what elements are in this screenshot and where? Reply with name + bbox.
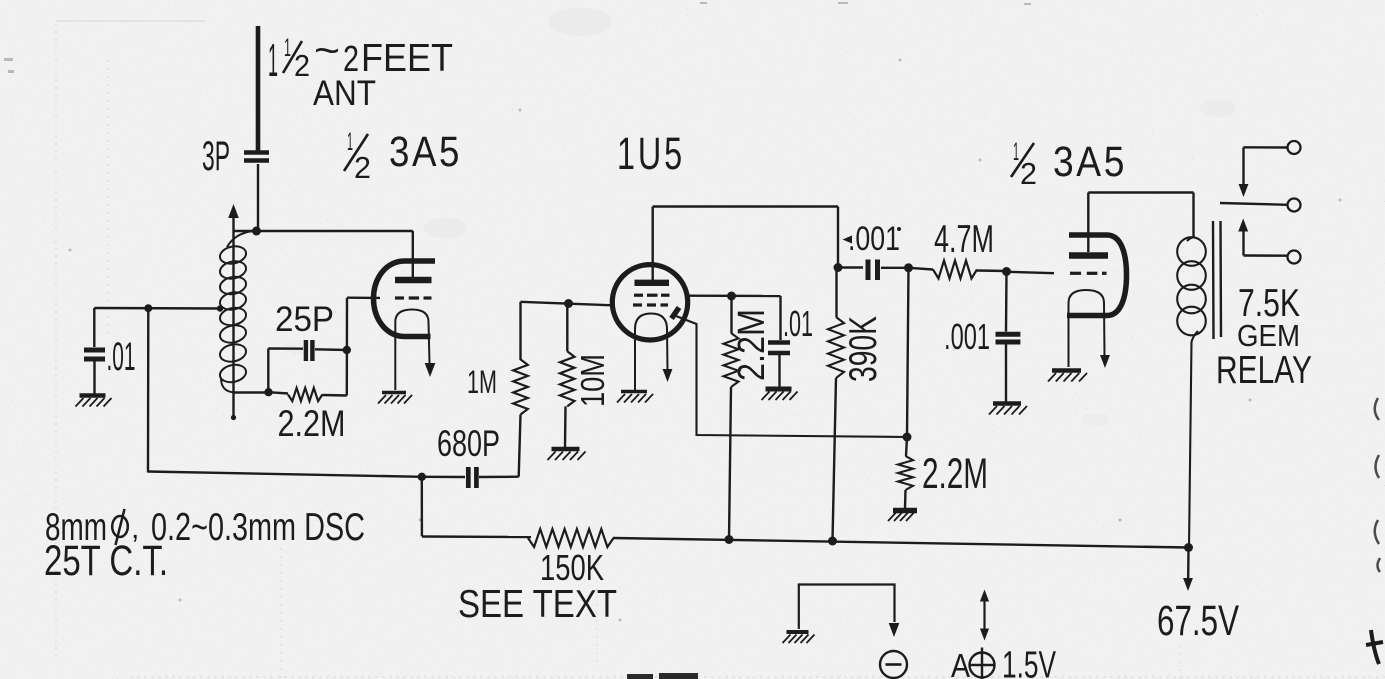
bottom edge dark dashes (627, 673, 698, 679)
tube V2 grid dashes row1 (634, 294, 643, 297)
svg-text:1: 1 (347, 128, 353, 156)
svg-text:RELAY: RELAY (1216, 349, 1312, 392)
relay coil top hook (1187, 237, 1194, 241)
ground (.01 V2) (766, 387, 792, 392)
relay contact terminal top (1288, 141, 1301, 154)
tube V2 filament arrow (663, 369, 673, 382)
wire C9 to ground (1005, 344, 1007, 402)
capacitor .01 (V2) (768, 340, 790, 344)
capacitor .01 (left) (84, 348, 105, 353)
svg-text:390K: 390K (842, 316, 885, 382)
resistor 4.7M (909, 268, 934, 270)
svg-text:150K: 150K (540, 547, 604, 588)
B- bracket arrow (889, 623, 900, 637)
svg-text:2.2M: 2.2M (731, 309, 773, 381)
svg-text:3A5: 3A5 (389, 128, 462, 176)
ground (10M) (552, 447, 580, 452)
tube V1 envelope (374, 261, 436, 337)
tube V1 filament arrow (425, 363, 436, 377)
svg-text:1U5: 1U5 (617, 128, 685, 179)
node F junction dot (904, 263, 913, 272)
relay contact bottom arrow (1238, 219, 1248, 232)
tube V2 plate lead (652, 207, 654, 281)
resistor 150K (528, 529, 614, 547)
svg-text:2.2M: 2.2M (922, 450, 988, 498)
coil tap wire (94, 307, 220, 310)
svg-text:.001: .001 (848, 220, 900, 258)
coil L1 top hook (227, 231, 254, 247)
wire 390K to rail (833, 378, 837, 541)
ground (B- bracket) (787, 630, 809, 634)
wire R3 to ground (564, 406, 567, 447)
ground (C9) (993, 401, 1021, 406)
capacitor .001 (coupling) (866, 260, 871, 281)
terminal B- circle (880, 651, 907, 678)
svg-text:1.5V: 1.5V (1002, 645, 1056, 679)
relay contact terminal bot (1288, 251, 1301, 264)
svg-text:3P: 3P (202, 132, 230, 179)
wire det load to ground (904, 490, 907, 508)
svg-text:SEE TEXT: SEE TEXT (458, 583, 617, 626)
antenna lead (thick) (256, 26, 261, 151)
svg-text:1: 1 (1013, 138, 1019, 166)
wire node A to V1 plate lead (234, 230, 413, 232)
tube V3 plate bar (1069, 252, 1108, 259)
resistor 390K (835, 268, 837, 318)
wire C7 to node F (881, 267, 909, 269)
node Y junction dot (343, 346, 351, 354)
tube V2 grid dashes row2 (633, 303, 642, 306)
relay contact top wire (1244, 146, 1288, 149)
B+ arrow (1183, 578, 1193, 591)
svg-text:.01: .01 (107, 335, 136, 379)
capacitor 680P (466, 467, 471, 488)
svg-text:2.2M: 2.2M (278, 403, 346, 444)
coil L1 slug arrow (228, 204, 239, 218)
coil tap junction dot (217, 305, 223, 311)
wire node X up to C3 branch (267, 349, 269, 393)
capacitor 3P (244, 150, 269, 155)
node X junction dot (264, 388, 272, 396)
node H junction dot (903, 433, 912, 442)
svg-text:A: A (951, 647, 970, 679)
node C junction dot (418, 473, 426, 481)
svg-text:680P: 680P (437, 423, 500, 464)
wire diode plate drop (676, 316, 909, 437)
rail junction dot (2.2M V2) (725, 535, 734, 544)
wire node C down (421, 477, 424, 537)
node G junction dot (2.2M top) (727, 292, 736, 301)
relay contact bottom wire (1242, 230, 1244, 256)
wire C4 to R2 bottom (479, 476, 519, 479)
svg-text:4.7M: 4.7M (934, 218, 994, 261)
wire V1 grid lead (347, 297, 380, 300)
ground (V3 filament) (1052, 368, 1081, 373)
svg-text:2: 2 (1020, 156, 1037, 191)
wire grid riser V1 (346, 298, 349, 396)
svg-text:3A5: 3A5 (1053, 138, 1127, 186)
svg-text:25T C.T.: 25T C.T. (44, 537, 168, 585)
wire rail left segment (422, 535, 531, 538)
node A junction dot (252, 227, 261, 236)
capacitor 25P (304, 340, 308, 361)
resistor 2.2M (V2) (730, 296, 732, 333)
tube V2 diode plate (slant) (672, 308, 680, 319)
relay core lines (1212, 221, 1215, 339)
tube V1 filament (395, 310, 429, 391)
right edge marks (1375, 398, 1380, 572)
svg-text:~: ~ (314, 29, 340, 73)
wire 2.2M V2 to rail (729, 387, 731, 540)
ground (det load) (893, 508, 917, 514)
tube V1 plate lead (412, 231, 414, 277)
ground (left .01) (80, 393, 106, 398)
wire node I to V3 grid (1007, 272, 1055, 273)
coil L1 bottom hook (221, 378, 236, 393)
svg-text:ANT: ANT (313, 74, 376, 113)
svg-text:1: 1 (284, 34, 291, 62)
svg-text:67.5V: 67.5V (1157, 597, 1239, 645)
coil L1 axis end dot (231, 415, 236, 420)
relay coil bottom exit (1189, 331, 1198, 548)
coil L1 slug axis line (232, 214, 234, 417)
wire V2 plate top rail (653, 205, 838, 207)
svg-text:2: 2 (354, 150, 371, 185)
capacitor .001 (grid V3) (996, 332, 1021, 337)
node D junction dot (10M top) (564, 299, 573, 308)
wire R2 top to grid rail (519, 302, 521, 360)
wire node F down to node H (907, 268, 909, 437)
node E junction dot (834, 263, 843, 272)
wire rail right segment (613, 538, 1189, 548)
ground (V2 filament) (621, 390, 647, 394)
svg-text:1: 1 (268, 34, 278, 86)
tube V1 grid dashes (395, 296, 404, 299)
tube V2 envelope (612, 265, 687, 340)
relay contact terminal mid (1288, 199, 1301, 212)
svg-text:0.2~0.3mm DSC: 0.2~0.3mm DSC (151, 506, 365, 549)
paper noise filter def (0, 0, 1, 1)
svg-text:10M: 10M (574, 354, 611, 407)
wire B+ arrow lead (1187, 548, 1190, 580)
svg-text:25P: 25P (275, 300, 334, 339)
node B junction dot (144, 304, 152, 312)
wire B- bracket (799, 585, 895, 630)
node I junction dot (1002, 267, 1011, 276)
ground (V1 filament) (382, 391, 406, 395)
tube V3 grid dashes (1070, 272, 1081, 275)
resistor 10M (R3) (566, 304, 568, 352)
resistor 1M (R2) (519, 415, 521, 477)
svg-text:2: 2 (343, 38, 359, 79)
wire coil bottom to node X (234, 391, 268, 393)
wire node I down to C9 (1005, 272, 1008, 332)
wire V3 plate to relay (1088, 191, 1193, 193)
tube V2 plate bar (635, 280, 670, 286)
svg-text:.01: .01 (783, 303, 813, 344)
wire tap to C2 (93, 308, 95, 347)
label .001 (coupling) marker (843, 236, 853, 244)
wire node B down (147, 308, 150, 472)
A battery double arrow (983, 600, 985, 630)
wire node B to node C (148, 472, 422, 477)
resistor 2.2M (det load) (906, 437, 907, 456)
rail junction dot (B+) (1184, 543, 1193, 552)
tube V3 plate lead (1087, 193, 1089, 253)
wire .01 drop (779, 296, 781, 340)
svg-text:2: 2 (294, 48, 310, 83)
terminal A+ circle (970, 653, 995, 678)
wire .01 to ground (778, 354, 780, 387)
rail junction dot (390K) (828, 537, 837, 546)
tube V3 filament (1069, 290, 1105, 367)
svg-text:.001: .001 (944, 316, 990, 357)
tube V2 filament (635, 314, 668, 391)
relay contact top arrow (1239, 184, 1249, 197)
paper texture patches (284, 8, 1236, 427)
resistor 2.2M (grid leak V1) (269, 392, 289, 393)
tube V3 filament arrow (1100, 355, 1110, 368)
svg-text:1M: 1M (467, 364, 497, 400)
svg-text:GEM: GEM (1237, 318, 1300, 353)
wire node C to C4 (422, 476, 465, 479)
coil L1 winding loops (218, 244, 247, 266)
relay armature bar (1220, 203, 1288, 205)
wire V2 g to 2.2M node (688, 295, 781, 298)
wire C2 to ground (93, 361, 95, 394)
wire 3P cap to node A (257, 164, 259, 231)
wire C3 branch (268, 347, 303, 350)
relay coil loops (1177, 237, 1206, 266)
tube V3 envelope (1067, 235, 1127, 316)
wire node E to C7 (838, 266, 863, 268)
tube V1 plate bar (395, 277, 432, 283)
